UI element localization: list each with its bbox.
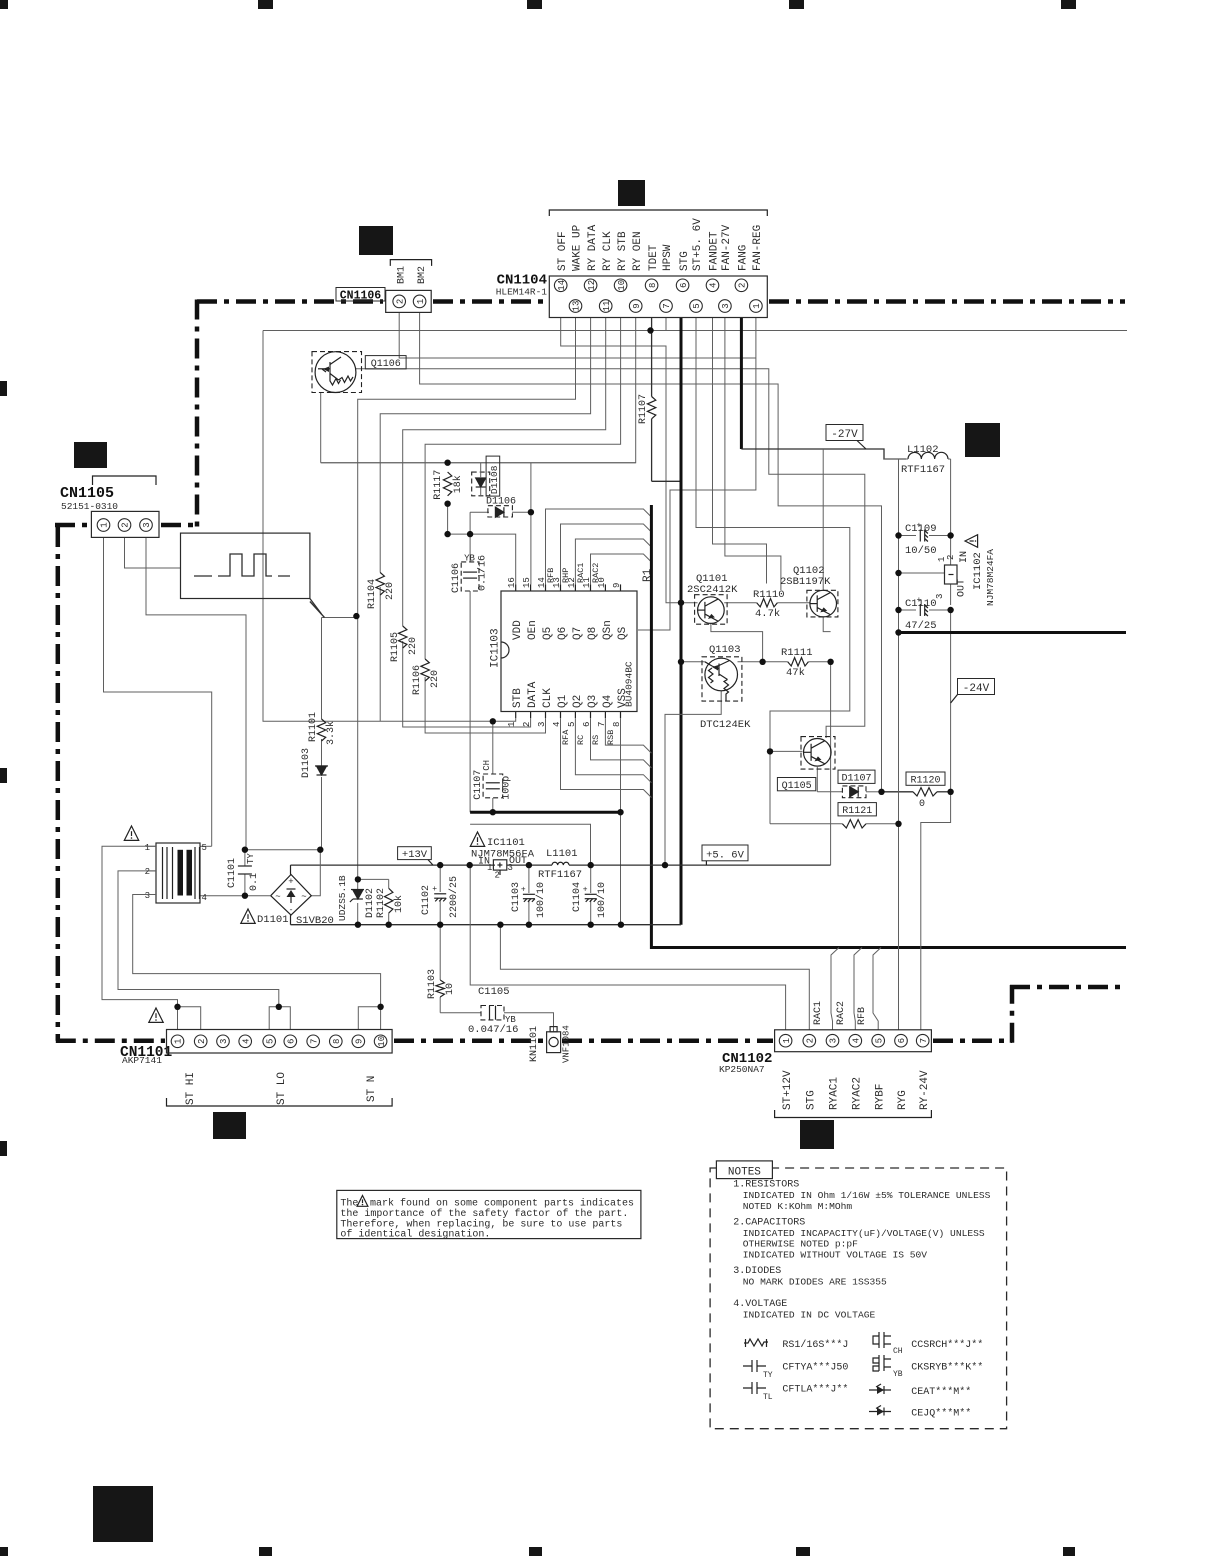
wire STB net	[493, 718, 516, 721]
svg-text:Q1106: Q1106	[371, 359, 401, 370]
NOTES box	[710, 1168, 1007, 1429]
wire transformer p1 to ST HI	[102, 846, 178, 1007]
label +5.6V	[702, 845, 748, 861]
wire R1103 column	[439, 925, 441, 980]
svg-text:6: 6	[679, 283, 689, 288]
waveform pointer	[310, 599, 322, 615]
svg-text:3: 3	[537, 722, 547, 727]
svg-text:RTF1167: RTF1167	[538, 869, 582, 881]
wire Q1101 emitter	[711, 623, 763, 661]
wire gray jog under thick rail	[470, 824, 590, 865]
diode D1107	[838, 770, 875, 783]
wire nested Z1 FAN-REG	[638, 318, 756, 631]
svg-text:KP250NA7: KP250NA7	[719, 1064, 765, 1075]
svg-text:9: 9	[355, 1039, 365, 1044]
svg-text:5: 5	[567, 722, 577, 727]
svg-text:FAN-REG: FAN-REG	[752, 225, 764, 271]
svg-text:R1102: R1102	[376, 888, 387, 918]
svg-text:8: 8	[612, 722, 622, 727]
svg-text:3: 3	[829, 1038, 839, 1043]
svg-text:+13V: +13V	[402, 849, 428, 861]
svg-text:BM1: BM1	[397, 266, 408, 284]
wire R1120 down to CN1102 pin7	[921, 792, 951, 1030]
svg-text:+5. 6V: +5. 6V	[706, 849, 745, 861]
svg-text:Q7: Q7	[572, 627, 584, 640]
svg-text:RY OEN: RY OEN	[632, 231, 644, 271]
wire C1110 link	[899, 609, 917, 611]
notes symbol TY capacitor	[743, 1360, 766, 1372]
svg-text:12: 12	[587, 280, 597, 291]
wire Q1101 collector R1110 Q1102	[724, 602, 757, 604]
svg-text:RFB: RFB	[546, 568, 556, 583]
wire C1104 column	[590, 865, 592, 893]
svg-text:+: +	[432, 885, 437, 894]
wire pin2 FANG to L1102	[740, 318, 743, 450]
registration marks	[0, 0, 8, 9]
svg-text:100/10: 100/10	[535, 882, 547, 918]
svg-text:Q3: Q3	[587, 695, 599, 708]
svg-text:NJM78M24FA: NJM78M24FA	[985, 549, 996, 606]
wire bridge plus riser	[290, 865, 292, 874]
wire +5.6V rail	[507, 864, 552, 866]
svg-text:2: 2	[522, 722, 532, 727]
svg-text:Q5: Q5	[542, 627, 554, 640]
wire Q1101 base	[681, 602, 698, 604]
svg-text:0.047/16: 0.047/16	[468, 1024, 518, 1036]
resistor R1102	[385, 888, 393, 913]
wire chain into CN1101	[56, 1038, 165, 1043]
svg-text:NOTES: NOTES	[728, 1166, 761, 1178]
wire pin4 route	[713, 318, 767, 584]
wire chain border left vertical	[195, 300, 200, 528]
wire CN1105 pin3 column	[146, 538, 246, 850]
resistor R1120	[906, 772, 945, 785]
svg-text:VDD: VDD	[512, 620, 524, 640]
svg-text:2: 2	[738, 283, 748, 288]
wire R1106 bottom to CLK	[425, 677, 545, 733]
svg-text:RAC2: RAC2	[836, 1001, 847, 1025]
svg-text:RYAC2: RYAC2	[852, 1077, 864, 1110]
wire D1106 net	[470, 511, 489, 513]
svg-text:3.3k: 3.3k	[325, 721, 337, 745]
svg-text:Q1105: Q1105	[782, 781, 812, 792]
svg-text:5: 5	[692, 303, 702, 308]
svg-text:QS: QS	[617, 626, 629, 640]
resistor R1104	[376, 573, 384, 596]
wire R1121 column to CN1102 pin6	[898, 633, 900, 824]
svg-text:C1107: C1107	[473, 770, 484, 800]
wire pin7 stub	[665, 318, 667, 331]
svg-text:220: 220	[408, 637, 419, 655]
svg-text:HLEM14R-1: HLEM14R-1	[496, 287, 548, 298]
svg-text:CN1106: CN1106	[340, 289, 382, 302]
wire L1102 right column IC1102	[950, 459, 952, 565]
svg-text:RC: RC	[576, 735, 586, 745]
wire Q1105 collector D1107 net	[816, 767, 818, 792]
svg-text:11: 11	[602, 301, 612, 312]
svg-text:RTF1167: RTF1167	[901, 464, 945, 476]
notes symbol CEJQ diode	[869, 1411, 891, 1413]
wire ground rail	[291, 924, 682, 926]
svg-text:220: 220	[430, 670, 441, 688]
wire pin8 TDET R1107 column	[651, 318, 653, 397]
svg-text:47k: 47k	[786, 667, 805, 679]
svg-text:FANDET: FANDET	[709, 231, 721, 271]
IC U IC1102 NJM78M24FA	[945, 565, 958, 584]
svg-text:RFB: RFB	[857, 1007, 868, 1025]
svg-text:6: 6	[287, 1039, 297, 1044]
wire bus corner to CN1102 fan	[651, 946, 1126, 949]
svg-text:1: 1	[416, 299, 426, 304]
svg-text:mark found on some component p: mark found on some component parts indic…	[370, 1198, 634, 1210]
svg-text:9: 9	[632, 303, 642, 308]
svg-text:RFA: RFA	[561, 729, 571, 745]
wire fan pin10 to R1106	[425, 318, 620, 660]
svg-text:STG: STG	[679, 251, 691, 271]
svg-text:7: 7	[309, 1039, 319, 1044]
svg-text:-27V: -27V	[831, 429, 858, 441]
svg-text:R1106: R1106	[412, 665, 423, 695]
svg-text:1: 1	[507, 722, 517, 727]
svg-text:CN1105: CN1105	[60, 485, 114, 502]
svg-text:52151-0310: 52151-0310	[61, 501, 118, 512]
svg-text:8: 8	[648, 283, 658, 288]
wire chain CN1105 left	[55, 523, 89, 528]
svg-text:1.RESISTORS: 1.RESISTORS	[733, 1180, 799, 1191]
svg-text:10k: 10k	[393, 895, 405, 913]
svg-text:R1117: R1117	[433, 470, 444, 500]
resistor R1121	[838, 803, 876, 816]
svg-text:NO MARK DIODES ARE 1SS355: NO MARK DIODES ARE 1SS355	[743, 1277, 887, 1288]
label +13V	[398, 847, 432, 860]
svg-text:TDET: TDET	[648, 244, 660, 271]
svg-text:CFTYA***J50: CFTYA***J50	[782, 1362, 848, 1374]
svg-text:100/10: 100/10	[596, 882, 608, 918]
wire thick -24V rail	[899, 631, 1127, 634]
wire Q1105 base	[770, 750, 803, 752]
svg-text:INDICATED IN Ohm 1/16W ±5% TOL: INDICATED IN Ohm 1/16W ±5% TOLERANCE UNL…	[743, 1190, 991, 1201]
svg-text:2: 2	[145, 867, 150, 877]
svg-text:6: 6	[582, 722, 592, 727]
svg-text:R1107: R1107	[638, 394, 649, 424]
wire IC1101 pin2 ground column	[470, 865, 785, 1030]
svg-text:TY: TY	[763, 1371, 773, 1380]
resistor R1105	[399, 626, 407, 648]
wire chain right of CN1102	[933, 1038, 1012, 1043]
svg-text:UDZS5.1B: UDZS5.1B	[337, 875, 348, 921]
svg-text:14: 14	[557, 280, 567, 291]
svg-text:STB: STB	[512, 688, 524, 708]
svg-text:R1104: R1104	[367, 579, 378, 609]
svg-text:+: +	[917, 522, 922, 531]
svg-text:R1101: R1101	[308, 712, 319, 742]
wire C1102 column	[439, 865, 441, 892]
svg-text:~: ~	[275, 892, 280, 902]
svg-text:C1105: C1105	[478, 986, 510, 998]
svg-text:R1121: R1121	[842, 806, 872, 817]
wire R1101 column	[321, 618, 323, 720]
svg-text:RYAC1: RYAC1	[829, 1077, 841, 1110]
wire IC1102 out to R1120	[950, 610, 952, 792]
label Q1106	[365, 356, 406, 369]
svg-text:Q4: Q4	[602, 694, 614, 708]
svg-text:8: 8	[332, 1039, 342, 1044]
svg-text:+: +	[288, 877, 293, 887]
wire TDET long horizontal	[263, 330, 1127, 332]
svg-text:RAC1: RAC1	[576, 563, 586, 583]
svg-text:of identical designation.: of identical designation.	[340, 1229, 490, 1241]
svg-text:7: 7	[597, 722, 607, 727]
wire C1106 column	[469, 512, 471, 562]
svg-text:C1102: C1102	[421, 885, 432, 915]
svg-text:4: 4	[852, 1038, 862, 1043]
svg-text:3: 3	[219, 1039, 229, 1044]
svg-text:AKP7141: AKP7141	[122, 1055, 162, 1066]
svg-text:RAC2: RAC2	[591, 563, 601, 583]
svg-text:4: 4	[241, 1039, 251, 1044]
transistor Q1106	[312, 352, 362, 393]
wire zener column	[357, 616, 359, 889]
connector KN1101 VNF1084	[547, 1032, 561, 1053]
svg-text:DTC124EK: DTC124EK	[700, 719, 751, 731]
svg-text:1: 1	[100, 522, 110, 527]
svg-text:KN1101: KN1101	[529, 1026, 540, 1062]
resistor R1101	[317, 719, 325, 741]
svg-text:D1107: D1107	[841, 774, 871, 785]
svg-text:RHP: RHP	[561, 568, 571, 583]
wire C1101 column	[244, 850, 246, 866]
wire chain CN1101 to KN1101	[394, 1038, 545, 1043]
svg-text:OTHERWISE NOTED p:pF: OTHERWISE NOTED p:pF	[743, 1239, 858, 1250]
svg-text:ST+5. 6V: ST+5. 6V	[692, 218, 704, 271]
svg-text:R1103: R1103	[427, 969, 438, 999]
wire C1109 link	[899, 535, 917, 537]
wire Q1102 collector	[823, 617, 830, 632]
svg-text:4: 4	[552, 722, 562, 727]
svg-text:OUT: OUT	[957, 579, 968, 597]
wire transformer p4 to bridge	[200, 895, 271, 897]
IC U IC1103 BU4094BC	[501, 591, 637, 712]
bracket CN1102	[775, 1110, 932, 1118]
wire R1117 bottom to VDD	[448, 504, 516, 585]
safety triangle D1101	[241, 909, 255, 923]
diode D1103	[317, 766, 327, 775]
wire chain left lower vertical	[56, 527, 61, 1041]
svg-text:ST+12V: ST+12V	[782, 1070, 794, 1110]
svg-text:CH: CH	[482, 760, 492, 771]
svg-text:4.VOLTAGE: 4.VOLTAGE	[733, 1299, 787, 1310]
svg-text:VSS: VSS	[617, 688, 629, 708]
svg-text:R1120: R1120	[910, 776, 940, 787]
svg-text:RYG: RYG	[897, 1090, 909, 1110]
svg-text:10: 10	[377, 1036, 387, 1047]
wire RAC1 drop	[831, 948, 839, 1030]
wire CN1101 pin pair ST HI	[178, 1007, 201, 1030]
wire fan pin11 to R1105	[403, 318, 606, 627]
wire pin5 route to Q1105	[696, 318, 850, 752]
svg-text:3: 3	[721, 303, 731, 308]
svg-text:RY DATA: RY DATA	[587, 224, 599, 271]
svg-text:15: 15	[522, 577, 532, 588]
wire IC1102 pin1 link	[899, 572, 945, 574]
wire C1103 column	[528, 865, 530, 893]
wire thick VSS rail	[470, 811, 620, 814]
svg-text:3: 3	[508, 863, 513, 873]
svg-text:3: 3	[142, 522, 152, 527]
wire nested Z3 CN1106 pin1	[420, 312, 882, 791]
wire OEn column	[530, 512, 532, 584]
wire RFB drop	[873, 948, 881, 1030]
svg-text:ST OFF: ST OFF	[557, 231, 569, 271]
svg-text:4: 4	[709, 283, 719, 288]
wire VSS pin drop	[620, 718, 622, 812]
wire chain KN1101 to CN1102	[562, 1038, 773, 1043]
svg-text:2: 2	[806, 1038, 816, 1043]
bracket CN1101	[167, 1098, 393, 1106]
wire IC1103 Q-output bus joins top	[546, 509, 652, 584]
svg-text:CLK: CLK	[542, 688, 554, 708]
svg-text:+: +	[521, 886, 526, 895]
svg-text:NOTED K:KOhm M:MOhm: NOTED K:KOhm M:MOhm	[743, 1201, 853, 1212]
label -27V	[826, 425, 863, 441]
svg-text:1: 1	[174, 1039, 184, 1044]
resistor R1103	[436, 980, 444, 997]
wire R1105 bottom to DATA	[403, 641, 531, 727]
wire C1105 link to KN1101	[440, 1012, 481, 1014]
svg-text:IC1101: IC1101	[487, 837, 525, 849]
svg-text:RYBF: RYBF	[874, 1084, 886, 1110]
notes symbol TL capacitor	[743, 1382, 766, 1394]
svg-text:13: 13	[572, 301, 582, 312]
svg-text:D1108: D1108	[489, 465, 500, 494]
resistor R1117	[443, 472, 451, 496]
wire R1104 bottom	[379, 587, 381, 721]
svg-text:CFTLA***J**: CFTLA***J**	[782, 1384, 848, 1396]
wire CN1105 pin2 column	[125, 538, 181, 568]
wire +13V rail	[291, 864, 496, 866]
svg-text:OEn: OEn	[527, 620, 539, 640]
svg-text:QSn: QSn	[602, 620, 614, 640]
wire R1117 net horizontal	[321, 462, 636, 464]
svg-text:0.1/16: 0.1/16	[477, 555, 489, 591]
svg-text:1: 1	[145, 843, 150, 853]
svg-text:5: 5	[202, 843, 207, 853]
svg-text:C1101: C1101	[227, 858, 238, 888]
svg-text:C1106: C1106	[451, 563, 462, 593]
wire rail branch 969	[500, 925, 809, 1030]
svg-text:HPSW: HPSW	[662, 244, 674, 271]
notes symbol CEAT diode	[869, 1389, 891, 1391]
svg-text:10: 10	[617, 280, 627, 291]
notes symbol CH capacitor	[873, 1332, 891, 1348]
svg-text:the importance of the safety f: the importance of the safety factor of t…	[340, 1208, 628, 1220]
svg-text:2: 2	[197, 1039, 207, 1044]
svg-text:2: 2	[395, 299, 405, 304]
svg-text:D1102: D1102	[365, 888, 376, 918]
svg-text:FAN-27V: FAN-27V	[721, 224, 733, 271]
svg-text:2: 2	[946, 555, 956, 560]
svg-text:D1101: D1101	[257, 914, 289, 926]
svg-text:TL: TL	[763, 1393, 773, 1402]
wire Q1105 emitter to R1121	[769, 751, 771, 823]
svg-text:C1104: C1104	[572, 882, 583, 912]
resistor R1107	[647, 397, 655, 419]
pins CN1105	[97, 519, 110, 532]
svg-text:2SB1197K: 2SB1197K	[780, 576, 831, 588]
svg-text:2: 2	[495, 871, 500, 881]
svg-text:-24V: -24V	[963, 683, 990, 695]
notes symbol YB capacitor	[873, 1355, 891, 1371]
safety triangle transformer	[124, 826, 138, 840]
svg-text:IN: IN	[959, 551, 970, 563]
svg-text:+: +	[583, 886, 588, 895]
svg-text:100p: 100p	[502, 776, 513, 800]
svg-text:CKSRYB***K**: CKSRYB***K**	[911, 1362, 983, 1374]
svg-text:STG: STG	[806, 1090, 818, 1110]
svg-text:CCSRCH***J**: CCSRCH***J**	[911, 1339, 983, 1351]
svg-text:1: 1	[487, 863, 492, 873]
svg-text:+: +	[917, 596, 922, 605]
svg-text:D1103: D1103	[301, 748, 312, 778]
svg-text:ST N: ST N	[366, 1076, 378, 1102]
svg-text:RS1/16S***J: RS1/16S***J	[782, 1339, 848, 1351]
svg-text:2.CAPACITORS: 2.CAPACITORS	[733, 1218, 805, 1229]
wire zener top link R1102	[358, 878, 389, 880]
svg-text:9: 9	[612, 583, 622, 588]
transformer T1101	[156, 843, 200, 903]
diode D1108	[472, 472, 490, 496]
svg-text:CH: CH	[893, 1347, 903, 1356]
svg-text:Q1103: Q1103	[709, 644, 741, 656]
wire D1107 to R1120	[882, 791, 914, 793]
capacitor C1107	[483, 774, 503, 798]
svg-text:5: 5	[874, 1038, 884, 1043]
svg-text:Q6: Q6	[557, 627, 569, 640]
svg-text:R1110: R1110	[753, 589, 785, 601]
svg-text:YB: YB	[893, 1370, 903, 1379]
wire pin6 STG thick column	[680, 318, 683, 925]
wire fan pin13	[358, 318, 576, 617]
svg-text:INDICATED WITHOUT VOLTAGE IS 5: INDICATED WITHOUT VOLTAGE IS 50V	[743, 1250, 927, 1261]
bridge rectifier D1101 S1VB20	[271, 875, 312, 916]
svg-text:TY: TY	[246, 853, 256, 864]
svg-text:6: 6	[897, 1038, 907, 1043]
svg-text:0: 0	[919, 799, 925, 810]
svg-text:2200/25: 2200/25	[448, 876, 460, 918]
wire IC1103 bottom RFA RC RS RSB joins	[561, 718, 652, 797]
svg-text:WAKE UP: WAKE UP	[572, 224, 584, 271]
wire CN1101 pin pair ST N	[358, 1007, 380, 1030]
resistor R1106	[421, 659, 429, 681]
safety note text box	[337, 1190, 641, 1238]
svg-text:INDICATED IN DC VOLTAGE: INDICATED IN DC VOLTAGE	[743, 1310, 876, 1321]
wire L1102 left column	[898, 459, 900, 633]
wire Q1102 emitter up	[822, 449, 824, 590]
notes symbol RS resistor	[744, 1339, 768, 1346]
svg-text:Q2: Q2	[572, 695, 584, 708]
svg-text:7: 7	[919, 1038, 929, 1043]
wire Q1103 base	[681, 661, 705, 663]
svg-text:R1105: R1105	[390, 632, 401, 662]
svg-text:4.7k: 4.7k	[755, 608, 780, 620]
svg-text:2: 2	[121, 522, 131, 527]
safety triangle CN1101	[149, 1008, 163, 1022]
svg-text:1: 1	[782, 1038, 792, 1043]
wire R1111 net	[738, 661, 788, 663]
wire pin14 ST OFF run	[561, 318, 679, 603]
wire CN1106 pin2 to Z line	[399, 312, 753, 358]
svg-text:3.DIODES: 3.DIODES	[733, 1266, 781, 1277]
